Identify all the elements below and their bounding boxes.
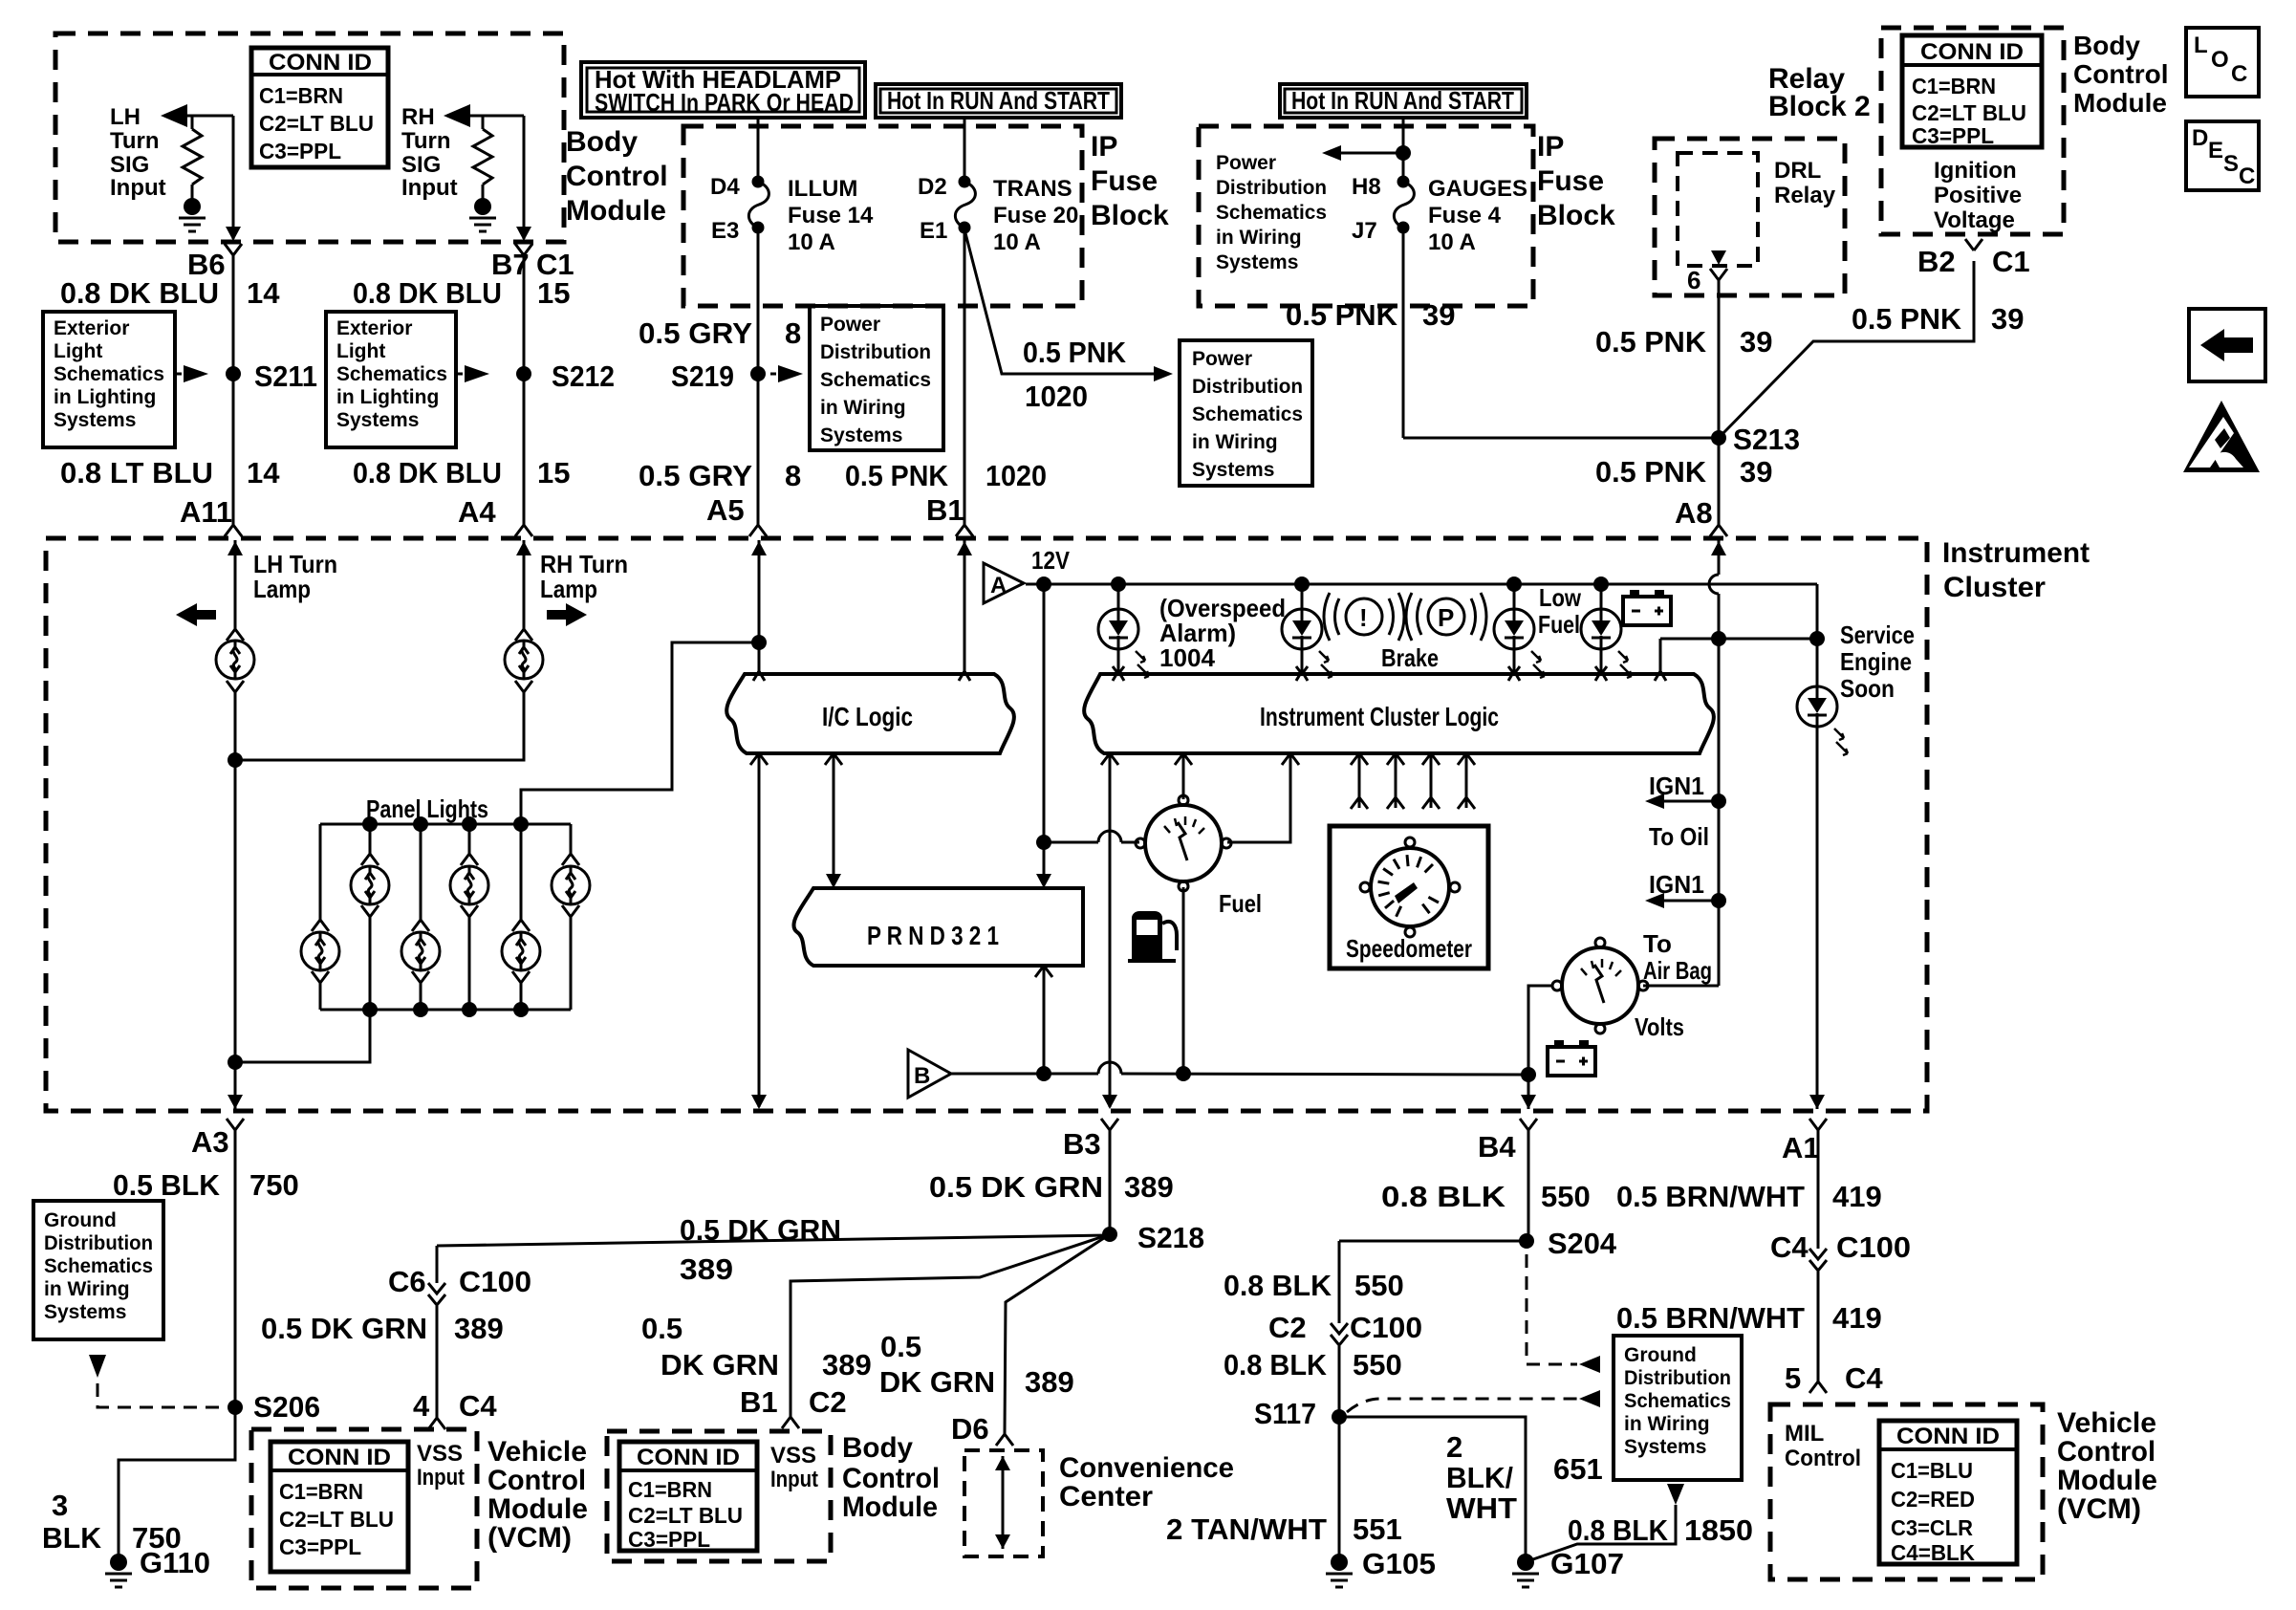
- svg-text:Fuse 14: Fuse 14: [788, 203, 874, 228]
- svg-text:C100: C100: [1836, 1230, 1911, 1264]
- svg-text:S212: S212: [552, 359, 615, 393]
- svg-text:39: 39: [1740, 455, 1772, 489]
- svg-text:To Oil: To Oil: [1649, 822, 1709, 851]
- svg-text:CONN ID: CONN ID: [637, 1445, 740, 1470]
- svg-text:C1=BRN: C1=BRN: [279, 1479, 363, 1504]
- svg-text:O: O: [2211, 47, 2229, 73]
- svg-text:C4: C4: [459, 1389, 497, 1423]
- svg-text:SIG: SIG: [110, 152, 149, 178]
- svg-text:Turn: Turn: [110, 128, 160, 154]
- svg-text:0.8 DK BLU: 0.8 DK BLU: [60, 276, 219, 310]
- svg-text:0.8 BLK: 0.8 BLK: [1568, 1513, 1669, 1547]
- svg-text:Positive: Positive: [1934, 183, 2022, 208]
- svg-text:in Wiring: in Wiring: [44, 1278, 130, 1300]
- svg-text:A5: A5: [706, 493, 745, 527]
- svg-text:C: C: [2239, 163, 2255, 189]
- svg-text:Hot In RUN And START: Hot In RUN And START: [887, 86, 1110, 115]
- svg-text:Service: Service: [1840, 620, 1915, 649]
- svg-text:DK GRN: DK GRN: [661, 1348, 779, 1382]
- svg-text:C3=PPL: C3=PPL: [259, 139, 341, 163]
- svg-text:0.8 BLK: 0.8 BLK: [1224, 1348, 1328, 1382]
- svg-text:Light: Light: [336, 340, 385, 362]
- svg-text:Systems: Systems: [820, 424, 902, 446]
- svg-text:in Lighting: in Lighting: [54, 386, 156, 408]
- svg-text:D6: D6: [951, 1412, 989, 1446]
- svg-text:Low: Low: [1539, 583, 1582, 612]
- svg-text:389: 389: [1124, 1170, 1174, 1204]
- svg-text:0.5: 0.5: [880, 1330, 921, 1363]
- svg-text:Block: Block: [1537, 200, 1615, 231]
- svg-text:Air Bag: Air Bag: [1643, 956, 1712, 985]
- svg-text:Instrument Cluster Logic: Instrument Cluster Logic: [1260, 702, 1499, 731]
- svg-text:0.8 BLK: 0.8 BLK: [1224, 1269, 1332, 1302]
- svg-text:12V: 12V: [1031, 546, 1071, 575]
- svg-text:Body: Body: [566, 126, 638, 158]
- svg-text:S213: S213: [1733, 423, 1800, 456]
- svg-text:39: 39: [1422, 298, 1455, 332]
- svg-text:D: D: [2192, 125, 2208, 151]
- svg-text:0.8 DK BLU: 0.8 DK BLU: [353, 276, 502, 310]
- svg-text:D2: D2: [918, 174, 947, 200]
- svg-text:Control: Control: [842, 1463, 940, 1494]
- svg-text:LH: LH: [110, 104, 141, 130]
- svg-text:Lamp: Lamp: [253, 575, 311, 603]
- svg-text:B2: B2: [1917, 245, 1956, 278]
- svg-text:Block 2: Block 2: [1768, 91, 1871, 122]
- svg-text:SIG: SIG: [401, 152, 441, 178]
- svg-text:Ignition: Ignition: [1934, 158, 2017, 184]
- svg-text:IP: IP: [1537, 131, 1564, 163]
- svg-text:0.5 PNK: 0.5 PNK: [1023, 336, 1127, 369]
- svg-text:(VCM): (VCM): [487, 1522, 572, 1554]
- svg-text:Hot In RUN And START: Hot In RUN And START: [1291, 86, 1514, 115]
- svg-text:39: 39: [1740, 325, 1772, 359]
- svg-text:0.5 BRN/WHT: 0.5 BRN/WHT: [1616, 1180, 1805, 1213]
- svg-text:C2=LT BLU: C2=LT BLU: [259, 111, 374, 136]
- svg-text:in Wiring: in Wiring: [820, 397, 906, 419]
- svg-text:Fuel: Fuel: [1538, 610, 1580, 639]
- svg-text:Control: Control: [2073, 59, 2169, 89]
- svg-text:IGN1: IGN1: [1649, 772, 1704, 800]
- svg-text:Schematics: Schematics: [1192, 403, 1303, 425]
- svg-text:Fuse: Fuse: [1537, 165, 1604, 197]
- svg-text:Lamp: Lamp: [540, 575, 597, 603]
- svg-text:C4=BLK: C4=BLK: [1891, 1540, 1975, 1565]
- svg-text:6: 6: [1687, 266, 1700, 294]
- svg-text:1020: 1020: [986, 459, 1047, 492]
- svg-text:Engine: Engine: [1840, 647, 1912, 676]
- svg-text:Distribution: Distribution: [1192, 376, 1303, 398]
- svg-text:0.5 PNK: 0.5 PNK: [1595, 455, 1707, 489]
- svg-text:15: 15: [537, 276, 570, 310]
- svg-text:in Lighting: in Lighting: [336, 386, 439, 408]
- svg-text:in Wiring: in Wiring: [1216, 227, 1302, 249]
- svg-text:C2=RED: C2=RED: [1891, 1487, 1975, 1512]
- svg-text:I/C Logic: I/C Logic: [822, 702, 913, 731]
- svg-text:P: P: [1438, 603, 1454, 632]
- svg-text:WHT: WHT: [1446, 1491, 1517, 1525]
- svg-text:550: 550: [1541, 1180, 1591, 1213]
- svg-text:E3: E3: [711, 218, 739, 244]
- svg-text:DRL: DRL: [1774, 158, 1821, 184]
- svg-text:Power: Power: [820, 314, 880, 336]
- svg-text:A11: A11: [180, 495, 232, 529]
- svg-text:Fuel: Fuel: [1219, 889, 1262, 918]
- svg-text:P R N D 3 2 1: P R N D 3 2 1: [867, 921, 999, 950]
- svg-text:0.5 BLK: 0.5 BLK: [113, 1168, 221, 1202]
- svg-text:14: 14: [247, 276, 280, 310]
- svg-text:Systems: Systems: [1624, 1436, 1706, 1458]
- svg-text:Module: Module: [2073, 88, 2167, 118]
- svg-text:Fuse 20: Fuse 20: [993, 203, 1078, 228]
- svg-text:8: 8: [785, 459, 801, 492]
- svg-text:C3=PPL: C3=PPL: [628, 1527, 710, 1552]
- svg-text:Ground: Ground: [44, 1209, 117, 1231]
- svg-text:Control: Control: [1785, 1446, 1861, 1471]
- svg-text:550: 550: [1354, 1269, 1404, 1302]
- svg-text:H8: H8: [1352, 174, 1381, 200]
- svg-text:1020: 1020: [1025, 380, 1088, 413]
- svg-text:Center: Center: [1059, 1481, 1153, 1512]
- svg-text:Schematics: Schematics: [44, 1255, 153, 1277]
- svg-text:in Wiring: in Wiring: [1192, 431, 1278, 453]
- svg-text:D4: D4: [710, 174, 740, 200]
- svg-text:C3=PPL: C3=PPL: [279, 1534, 361, 1559]
- svg-text:C1=BRN: C1=BRN: [628, 1477, 712, 1502]
- svg-text:Schematics: Schematics: [1624, 1390, 1731, 1412]
- svg-text:0.5 PNK: 0.5 PNK: [1595, 325, 1707, 359]
- svg-text:C3=CLR: C3=CLR: [1891, 1515, 1973, 1540]
- svg-text:Control: Control: [566, 161, 668, 192]
- svg-text:389: 389: [1025, 1365, 1074, 1399]
- svg-text:Systems: Systems: [1192, 459, 1274, 481]
- svg-text:0.5 BRN/WHT: 0.5 BRN/WHT: [1616, 1301, 1805, 1335]
- svg-text:Cluster: Cluster: [1943, 572, 2046, 603]
- svg-text:E: E: [2208, 138, 2223, 163]
- svg-text:39: 39: [1991, 302, 2024, 336]
- svg-text:10 A: 10 A: [993, 229, 1041, 255]
- svg-text:in Wiring: in Wiring: [1624, 1413, 1710, 1435]
- svg-text:IGN1: IGN1: [1649, 870, 1704, 899]
- svg-text:B1: B1: [926, 493, 964, 527]
- svg-text:651: 651: [1553, 1452, 1603, 1486]
- svg-text:Distribution: Distribution: [44, 1232, 153, 1254]
- svg-text:Power: Power: [1216, 152, 1276, 174]
- svg-text:Vehicle: Vehicle: [487, 1436, 587, 1468]
- svg-text:(VCM): (VCM): [2057, 1493, 2141, 1525]
- svg-text:5: 5: [1785, 1361, 1801, 1395]
- svg-text:S204: S204: [1548, 1227, 1617, 1260]
- svg-text:2 TAN/WHT: 2 TAN/WHT: [1166, 1512, 1327, 1546]
- svg-text:To: To: [1643, 929, 1672, 958]
- svg-text:CONN ID: CONN ID: [1920, 39, 2024, 65]
- svg-text:A1: A1: [1782, 1131, 1820, 1164]
- svg-text:Light: Light: [54, 340, 102, 362]
- svg-text:550: 550: [1353, 1348, 1402, 1382]
- svg-text:MIL: MIL: [1785, 1421, 1824, 1447]
- svg-text:B: B: [914, 1063, 930, 1089]
- svg-text:Vehicle: Vehicle: [2057, 1407, 2156, 1439]
- svg-text:Module: Module: [487, 1493, 588, 1525]
- svg-text:0.5 PNK: 0.5 PNK: [1286, 298, 1398, 332]
- svg-text:Systems: Systems: [336, 409, 419, 431]
- svg-text:C3=PPL: C3=PPL: [1912, 123, 1994, 148]
- svg-text:419: 419: [1832, 1180, 1882, 1213]
- svg-text:14: 14: [247, 456, 280, 490]
- svg-text:S218: S218: [1137, 1221, 1204, 1254]
- svg-text:Input: Input: [110, 175, 166, 201]
- svg-text:Brake: Brake: [1381, 643, 1439, 672]
- svg-text:S219: S219: [671, 359, 734, 393]
- svg-text:VSS: VSS: [770, 1443, 816, 1469]
- svg-text:C100: C100: [459, 1265, 531, 1298]
- svg-text:0.8 BLK: 0.8 BLK: [1381, 1180, 1506, 1213]
- svg-text:389: 389: [680, 1252, 733, 1286]
- svg-text:Body: Body: [2073, 31, 2140, 60]
- svg-text:Distribution: Distribution: [1216, 177, 1327, 199]
- svg-text:TRANS: TRANS: [993, 176, 1072, 202]
- svg-text:CONN ID: CONN ID: [288, 1445, 391, 1470]
- svg-text:1850: 1850: [1684, 1513, 1753, 1547]
- svg-text:C1=BRN: C1=BRN: [259, 83, 343, 108]
- svg-text:B3: B3: [1063, 1127, 1101, 1161]
- svg-text:10 A: 10 A: [788, 229, 835, 255]
- svg-text:G105: G105: [1362, 1547, 1436, 1580]
- svg-text:Module: Module: [842, 1491, 938, 1523]
- svg-text:S: S: [2223, 151, 2239, 177]
- svg-text:Exterior: Exterior: [336, 317, 412, 339]
- svg-text:419: 419: [1832, 1301, 1882, 1335]
- svg-text:CONN ID: CONN ID: [1896, 1424, 2000, 1449]
- svg-text:Systems: Systems: [44, 1301, 126, 1323]
- svg-text:C2: C2: [809, 1385, 847, 1419]
- svg-text:0.5 PNK: 0.5 PNK: [845, 459, 949, 492]
- svg-text:BLK/: BLK/: [1446, 1461, 1513, 1494]
- svg-text:A: A: [990, 573, 1007, 598]
- svg-text:E1: E1: [920, 218, 947, 244]
- svg-text:750: 750: [249, 1168, 299, 1202]
- svg-text:C2=LT BLU: C2=LT BLU: [279, 1507, 394, 1532]
- svg-text:3: 3: [52, 1489, 68, 1522]
- svg-text:750: 750: [132, 1521, 182, 1555]
- svg-text:389: 389: [454, 1312, 504, 1345]
- svg-text:Speedometer: Speedometer: [1346, 934, 1472, 963]
- svg-text:10 A: 10 A: [1428, 229, 1476, 255]
- svg-text:0.5 DK GRN: 0.5 DK GRN: [261, 1312, 427, 1345]
- svg-text:Body: Body: [842, 1432, 913, 1464]
- svg-text:G107: G107: [1550, 1547, 1624, 1580]
- svg-text:Control: Control: [487, 1465, 586, 1496]
- svg-text:A3: A3: [191, 1125, 229, 1159]
- svg-text:Turn: Turn: [401, 128, 451, 154]
- svg-text:J7: J7: [1352, 218, 1377, 244]
- svg-text:Voltage: Voltage: [1934, 207, 2015, 233]
- svg-text:Distribution: Distribution: [1624, 1367, 1731, 1389]
- svg-text:DK GRN: DK GRN: [879, 1365, 995, 1399]
- svg-text:Systems: Systems: [54, 409, 136, 431]
- svg-text:Schematics: Schematics: [336, 363, 447, 385]
- svg-text:Fuse 4: Fuse 4: [1428, 203, 1502, 228]
- svg-text:C4: C4: [1770, 1230, 1809, 1264]
- svg-text:Ground: Ground: [1624, 1344, 1697, 1366]
- svg-text:VSS: VSS: [417, 1441, 463, 1467]
- svg-text:Exterior: Exterior: [54, 317, 129, 339]
- svg-text:GAUGES: GAUGES: [1428, 176, 1527, 202]
- svg-text:C: C: [2231, 61, 2247, 87]
- svg-text:!: !: [1359, 603, 1368, 632]
- svg-text:0.5 GRY: 0.5 GRY: [639, 459, 752, 492]
- svg-text:B1: B1: [740, 1385, 778, 1419]
- svg-text:BLK: BLK: [42, 1521, 102, 1555]
- svg-text:S117: S117: [1254, 1397, 1316, 1430]
- svg-text:8: 8: [785, 316, 801, 350]
- svg-text:0.8 LT BLU: 0.8 LT BLU: [60, 456, 213, 490]
- svg-text:Control: Control: [2057, 1436, 2155, 1468]
- svg-text:Block: Block: [1091, 200, 1169, 231]
- svg-text:Systems: Systems: [1216, 251, 1298, 273]
- svg-text:Input: Input: [401, 175, 458, 201]
- svg-text:0.5 PNK: 0.5 PNK: [1852, 302, 1962, 336]
- svg-text:IP: IP: [1091, 131, 1117, 163]
- svg-text:S206: S206: [253, 1390, 320, 1424]
- svg-text:Input: Input: [770, 1467, 818, 1492]
- svg-text:A4: A4: [458, 495, 496, 529]
- svg-text:A8: A8: [1675, 496, 1713, 530]
- svg-text:Power: Power: [1192, 348, 1252, 370]
- svg-text:Module: Module: [2057, 1465, 2157, 1496]
- svg-text:Fuse: Fuse: [1091, 165, 1158, 197]
- svg-text:CONN ID: CONN ID: [269, 50, 372, 76]
- svg-text:C100: C100: [1350, 1311, 1422, 1344]
- svg-text:2: 2: [1446, 1430, 1462, 1464]
- svg-text:0.5 DK GRN: 0.5 DK GRN: [929, 1170, 1103, 1204]
- svg-text:S211: S211: [254, 359, 317, 393]
- svg-text:0.5 GRY: 0.5 GRY: [639, 316, 752, 350]
- svg-text:4: 4: [413, 1389, 430, 1423]
- svg-text:389: 389: [822, 1348, 872, 1382]
- svg-text:C1=BLU: C1=BLU: [1891, 1458, 1973, 1483]
- svg-text:B4: B4: [1478, 1130, 1516, 1164]
- svg-text:Module: Module: [566, 195, 666, 227]
- svg-text:C2: C2: [1268, 1311, 1307, 1344]
- svg-text:C6: C6: [388, 1265, 426, 1298]
- svg-text:C1=BRN: C1=BRN: [1912, 74, 1996, 98]
- svg-text:C4: C4: [1845, 1361, 1883, 1395]
- svg-text:C2=LT BLU: C2=LT BLU: [1912, 100, 2026, 125]
- svg-text:SWITCH In PARK Or HEAD: SWITCH In PARK Or HEAD: [595, 88, 854, 117]
- svg-text:Instrument: Instrument: [1942, 537, 2090, 569]
- svg-text:C2=LT BLU: C2=LT BLU: [628, 1503, 743, 1528]
- svg-text:1004: 1004: [1159, 643, 1216, 672]
- svg-text:Input: Input: [417, 1465, 465, 1490]
- svg-text:Soon: Soon: [1840, 674, 1895, 703]
- svg-text:L: L: [2194, 33, 2208, 58]
- svg-text:Schematics: Schematics: [820, 369, 931, 391]
- svg-text:15: 15: [537, 456, 570, 490]
- svg-text:Distribution: Distribution: [820, 341, 931, 363]
- svg-text:0.5: 0.5: [641, 1312, 682, 1345]
- svg-text:Relay: Relay: [1774, 183, 1836, 208]
- svg-text:551: 551: [1353, 1512, 1402, 1546]
- svg-text:Volts: Volts: [1635, 1012, 1684, 1041]
- svg-text:ILLUM: ILLUM: [788, 176, 857, 202]
- svg-text:Convenience: Convenience: [1059, 1452, 1234, 1484]
- svg-text:0.8 DK BLU: 0.8 DK BLU: [353, 456, 502, 490]
- svg-text:Schematics: Schematics: [54, 363, 164, 385]
- svg-text:Schematics: Schematics: [1216, 202, 1327, 224]
- svg-text:RH: RH: [401, 104, 435, 130]
- svg-text:C1: C1: [1992, 245, 2030, 278]
